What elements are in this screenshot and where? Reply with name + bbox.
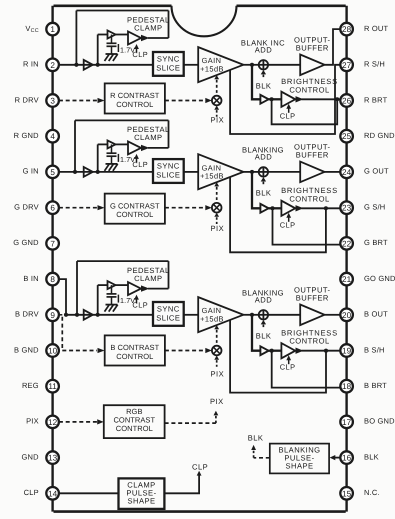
svg-text:25: 25 bbox=[342, 132, 352, 141]
svg-text:CONTROL: CONTROL bbox=[289, 85, 329, 94]
svg-text:26: 26 bbox=[342, 97, 352, 106]
svg-text:PIX: PIX bbox=[211, 370, 225, 379]
IC package outline (left edge) bbox=[51, 6, 53, 512]
wire pedestal clamp feedback to G input line bbox=[74, 120, 76, 171]
wire pedestal clamp feedback to B input line bbox=[76, 261, 78, 315]
brightness control arrow (R) bbox=[296, 96, 304, 102]
wire multiplier to gain amp (dashed, G) bbox=[214, 182, 219, 186]
svg-text:CONTROL: CONTROL bbox=[289, 194, 329, 203]
svg-text:5: 5 bbox=[50, 168, 55, 177]
wire G DRV drive input (dashed) bbox=[59, 207, 97, 209]
pin 8 circle bbox=[46, 273, 59, 286]
multiplier contrast gain control (R) bbox=[212, 96, 222, 106]
node CLP clamp pulse input (R) bbox=[136, 48, 138, 53]
IC package outline (bottom edge) bbox=[54, 510, 346, 513]
node CLP clamp pulse input (G) bbox=[136, 157, 138, 162]
wire pin 18 B BRT to brightness loop bbox=[272, 351, 341, 388]
svg-text:16: 16 bbox=[342, 454, 352, 463]
capacitor clamp storage (G) bbox=[111, 144, 113, 153]
svg-text:B OUT: B OUT bbox=[364, 310, 388, 319]
wire G S/H feedback to gain amp bbox=[230, 177, 326, 253]
node CLP clamp pulse input (B) bbox=[136, 298, 138, 303]
node gain output junction (B) bbox=[250, 313, 254, 317]
pin 16 circle bbox=[340, 451, 353, 464]
wire B output buffer to pin 20 B OUT bbox=[325, 314, 341, 316]
wire gain amp to blanking adder (G) bbox=[243, 171, 258, 173]
svg-text:SHAPE: SHAPE bbox=[286, 461, 314, 470]
clamp comparator amp (R) bbox=[128, 32, 141, 45]
svg-text:+15dB: +15dB bbox=[200, 172, 224, 181]
pedestal clamp box right edge (B) bbox=[168, 261, 170, 289]
svg-text:CONTROL: CONTROL bbox=[116, 210, 153, 219]
svg-text:BLK: BLK bbox=[256, 81, 272, 90]
node PIX into multiplier (R) bbox=[214, 106, 219, 110]
wire R brightness feedback loop bbox=[272, 99, 338, 124]
svg-text:ADD: ADD bbox=[255, 153, 272, 162]
svg-text:BUFFER: BUFFER bbox=[296, 293, 329, 302]
wire multiplier to gain amp (dashed, B) bbox=[214, 325, 219, 329]
node 1.7V reference (G) bbox=[117, 154, 119, 162]
node B clamp sense junction bbox=[96, 313, 100, 317]
gain amp +15dB (R) bbox=[198, 47, 243, 82]
svg-text:3: 3 bbox=[50, 97, 55, 106]
wire clamp amp output (G) bbox=[148, 147, 169, 149]
wire pin 12 PIX input (dashed) bbox=[59, 421, 97, 423]
svg-text:15: 15 bbox=[342, 489, 352, 498]
node CLP into brightness control (G) bbox=[288, 217, 290, 222]
node 1.7V reference (B) bbox=[117, 295, 119, 303]
svg-text:23: 23 bbox=[342, 204, 352, 213]
svg-text:PIX: PIX bbox=[210, 397, 224, 406]
svg-text:B GND: B GND bbox=[14, 345, 39, 354]
svg-text:N.C.: N.C. bbox=[364, 488, 380, 497]
svg-text:B S/H: B S/H bbox=[364, 345, 385, 354]
pin 19 circle bbox=[340, 344, 353, 357]
summing node blanking add (G) bbox=[259, 167, 268, 176]
svg-text:8: 8 bbox=[50, 275, 55, 284]
ground clamp reference (B) bbox=[106, 304, 118, 306]
wire pin 8 B IN down to B signal line bbox=[59, 279, 66, 315]
clamp buffer amp (B) bbox=[108, 281, 116, 289]
block RGB CONTRAST CONTROL bbox=[104, 405, 165, 438]
clamp comparator amp (G) bbox=[128, 141, 141, 154]
pin 4 circle bbox=[46, 130, 59, 143]
svg-text:R IN: R IN bbox=[23, 60, 39, 69]
gain amp +15dB (G) bbox=[198, 154, 243, 189]
svg-text:G IN: G IN bbox=[23, 167, 39, 176]
pedestal clamp box right edge (R) bbox=[168, 11, 170, 39]
input buffer amp (R channel) bbox=[84, 60, 93, 70]
pin 12 circle bbox=[46, 416, 59, 429]
svg-text:24: 24 bbox=[342, 168, 352, 177]
svg-text:2: 2 bbox=[50, 61, 55, 70]
node brightness loop junction (R) bbox=[270, 97, 274, 101]
svg-text:7: 7 bbox=[50, 239, 55, 248]
wire BLK blanking pulse into adder (B) bbox=[261, 320, 266, 324]
clamp buffer amp (R) bbox=[108, 31, 116, 39]
pin 22 circle bbox=[340, 237, 353, 250]
svg-text:CLP: CLP bbox=[24, 488, 39, 497]
block B CONTRAST CONTROL bbox=[105, 335, 165, 365]
svg-text:PIX: PIX bbox=[211, 224, 225, 233]
svg-text:22: 22 bbox=[342, 239, 352, 248]
wire pin 9 B DRV jog down (dashed) bbox=[59, 314, 62, 316]
pin 24 circle bbox=[340, 166, 353, 179]
wire to brightness control amp (G) bbox=[269, 207, 282, 209]
wire pedestal clamp feedback to R input line bbox=[75, 11, 77, 65]
clamp amp controlled-output arrow (R) bbox=[141, 35, 150, 41]
pin 5 circle bbox=[46, 166, 59, 179]
svg-text:SLICE: SLICE bbox=[156, 171, 180, 180]
wire R IN main signal line bbox=[59, 64, 153, 66]
node PIX into multiplier (B) bbox=[214, 356, 219, 360]
gain amp +15dB (B) bbox=[198, 297, 243, 332]
svg-text:REG: REG bbox=[22, 381, 39, 390]
IC package outline (right edge) bbox=[345, 6, 347, 512]
node G clamp feedback junction bbox=[73, 170, 77, 174]
pin 3 circle bbox=[46, 94, 59, 107]
pin 14 circle bbox=[46, 487, 59, 500]
svg-text:BUFFER: BUFFER bbox=[296, 43, 329, 52]
wire adder to output buffer (G) bbox=[268, 171, 300, 173]
svg-text:CONTROL: CONTROL bbox=[116, 100, 153, 109]
svg-text:20: 20 bbox=[342, 311, 352, 320]
pedestal clamp box top edge (B) bbox=[77, 260, 169, 262]
wire gain output down to black-level buffer (G) bbox=[252, 172, 260, 208]
node 1.7V reference (R) bbox=[117, 44, 119, 52]
wire RGB contrast control PIX output (dashed) bbox=[165, 422, 216, 424]
svg-text:SYNC: SYNC bbox=[157, 305, 180, 314]
pedestal clamp box top edge (G) bbox=[75, 119, 169, 121]
svg-text:B DRV: B DRV bbox=[15, 310, 39, 319]
svg-text:ADD: ADD bbox=[255, 296, 272, 305]
svg-text:27: 27 bbox=[342, 61, 352, 70]
IC package pin-1 index notch bbox=[172, 6, 237, 37]
svg-text:+15dB: +15dB bbox=[200, 65, 224, 74]
svg-text:CLP: CLP bbox=[280, 220, 296, 229]
wire BLK blanking pulse into adder (R) bbox=[261, 70, 266, 74]
svg-text:SLICE: SLICE bbox=[156, 313, 180, 322]
wire clamp amp output (R) bbox=[148, 37, 169, 39]
svg-text:CONTROL: CONTROL bbox=[116, 352, 153, 361]
pin 23 circle bbox=[340, 201, 353, 214]
ground clamp reference (R) bbox=[106, 53, 118, 55]
svg-text:11: 11 bbox=[48, 382, 57, 391]
wire contrast control to multiplier (dashed, R) bbox=[165, 100, 205, 102]
svg-text:G GND: G GND bbox=[13, 238, 39, 247]
wire clamp buffer to clamp amp (B) bbox=[116, 284, 129, 286]
svg-text:13: 13 bbox=[48, 454, 58, 463]
node brightness loop junction (G) bbox=[270, 206, 274, 210]
svg-text:CLAMP: CLAMP bbox=[134, 274, 162, 283]
svg-text:ADD: ADD bbox=[255, 46, 272, 55]
svg-text:PIX: PIX bbox=[26, 417, 39, 426]
pin 20 circle bbox=[340, 309, 353, 322]
block SYNC SLICE (B) bbox=[153, 302, 184, 326]
svg-text:18: 18 bbox=[342, 382, 352, 391]
svg-text:CLP: CLP bbox=[132, 160, 148, 169]
wire pin 27 R S/H feedback to gain amp bbox=[230, 65, 340, 134]
wire B input sense to clamp buffer bbox=[97, 285, 99, 315]
node R BRT wire junction bbox=[335, 97, 339, 101]
svg-text:14: 14 bbox=[48, 489, 58, 498]
svg-text:SYNC: SYNC bbox=[157, 162, 180, 171]
wire to brightness control amp (B) bbox=[269, 350, 282, 352]
svg-text:SYNC: SYNC bbox=[157, 55, 180, 64]
block SYNC SLICE (G) bbox=[153, 159, 184, 183]
pin 13 circle bbox=[46, 451, 59, 464]
wire B IN main signal line bbox=[66, 314, 153, 316]
pin 9 circle bbox=[46, 309, 59, 322]
svg-text:G S/H: G S/H bbox=[364, 203, 385, 212]
summing node blanking add (R) bbox=[259, 60, 268, 69]
wire clamp pulse shaper CLP output bbox=[164, 475, 199, 493]
svg-text:CLP: CLP bbox=[192, 463, 208, 472]
input buffer amp (G channel) bbox=[84, 167, 93, 177]
svg-text:CLAMP: CLAMP bbox=[134, 23, 162, 32]
svg-text:CONTROL: CONTROL bbox=[289, 337, 329, 346]
svg-text:R GND: R GND bbox=[14, 131, 40, 140]
wire gain amp to blanking adder (R) bbox=[243, 64, 258, 66]
pin 10 circle bbox=[46, 344, 59, 357]
wire G IN main signal line bbox=[59, 171, 153, 173]
pin 28 circle bbox=[340, 23, 353, 36]
black-level buffer amp (G) bbox=[260, 204, 268, 213]
wire brightness control to R BRT/SH pin bbox=[302, 98, 341, 100]
wire clamp amp output (B) bbox=[148, 288, 169, 290]
wire sync slice to gain amp (B) bbox=[184, 314, 199, 316]
summing node blanking add (B) bbox=[259, 310, 268, 319]
pin 25 circle bbox=[340, 130, 353, 143]
svg-text:B BRT: B BRT bbox=[364, 381, 387, 390]
wire clamp buffer to clamp amp (G) bbox=[116, 143, 129, 145]
block R CONTRAST CONTROL bbox=[105, 83, 165, 113]
pin 21 circle bbox=[340, 273, 353, 286]
pin 7 circle bbox=[46, 237, 59, 250]
block BLANKING PULSE-SHAPE bbox=[270, 444, 329, 474]
clamp amp controlled-output arrow (B) bbox=[141, 285, 150, 291]
multiplier contrast gain control (B) bbox=[212, 346, 222, 356]
node B clamp feedback junction bbox=[75, 313, 79, 317]
svg-text:PIX: PIX bbox=[211, 115, 225, 124]
wire adder to output buffer (B) bbox=[268, 314, 300, 316]
pin 26 circle bbox=[340, 94, 353, 107]
svg-text:BUFFER: BUFFER bbox=[296, 151, 329, 160]
node B S/H wire junction bbox=[324, 349, 328, 353]
wire R output buffer to pin 28 R OUT bbox=[325, 29, 341, 65]
brightness control amp (R) bbox=[281, 92, 295, 107]
pin 15 circle bbox=[340, 487, 353, 500]
wire R DRV drive input (dashed) bbox=[59, 100, 97, 102]
IC package outline (top edge, right segment) bbox=[237, 5, 346, 8]
wire contrast control to multiplier (dashed, B) bbox=[165, 350, 205, 352]
wire BLK blanking pulse into adder (G) bbox=[261, 177, 266, 181]
node PIX into multiplier (G) bbox=[214, 213, 219, 217]
svg-text:R DRV: R DRV bbox=[15, 95, 39, 104]
wire B S/H feedback to gain amp bbox=[230, 320, 326, 393]
wire brightness control to B BRT/SH pin bbox=[302, 350, 341, 352]
svg-text:6: 6 bbox=[50, 204, 55, 213]
ground clamp reference (G) bbox=[106, 163, 118, 165]
svg-text:21: 21 bbox=[342, 275, 352, 284]
node G S/H wire junction bbox=[324, 206, 328, 210]
svg-text:G BRT: G BRT bbox=[364, 238, 388, 247]
node brightness loop junction (B) bbox=[270, 349, 274, 353]
svg-text:17: 17 bbox=[342, 418, 352, 427]
svg-text:R OUT: R OUT bbox=[364, 24, 389, 33]
pin 17 circle bbox=[340, 416, 353, 429]
pin 11 circle bbox=[46, 380, 59, 393]
block CLAMP PULSE-SHAPE bbox=[119, 478, 165, 509]
black-level buffer amp (B) bbox=[260, 346, 268, 355]
svg-text:9: 9 bbox=[50, 311, 55, 320]
multiplier contrast gain control (G) bbox=[212, 203, 222, 213]
node G clamp sense junction bbox=[96, 170, 100, 174]
svg-text:SLICE: SLICE bbox=[156, 63, 180, 72]
svg-text:B IN: B IN bbox=[23, 274, 38, 283]
wire adder to output buffer (R) bbox=[268, 64, 300, 66]
pin 6 circle bbox=[46, 201, 59, 214]
wire G output buffer to pin 24 G OUT bbox=[325, 171, 341, 173]
pedestal clamp box right edge (G) bbox=[168, 120, 170, 147]
node R clamp feedback junction bbox=[74, 63, 78, 67]
wire G input sense to clamp buffer bbox=[97, 144, 99, 172]
pin 18 circle bbox=[340, 380, 353, 393]
clamp amp controlled-output arrow (G) bbox=[141, 145, 150, 151]
wire blanking pulse shaper BLK output (dashed) bbox=[254, 457, 270, 459]
svg-text:GO GND: GO GND bbox=[364, 274, 395, 283]
svg-text:G OUT: G OUT bbox=[364, 167, 389, 176]
brightness control arrow (B) bbox=[296, 348, 304, 354]
wire sync slice to gain amp (G) bbox=[184, 171, 199, 173]
svg-text:BLK: BLK bbox=[248, 434, 264, 443]
output buffer amp (R) bbox=[300, 55, 324, 76]
wire contrast control to multiplier (dashed, G) bbox=[165, 207, 205, 209]
wire R input sense to clamp buffer bbox=[97, 35, 99, 65]
pedestal clamp box top edge (R) bbox=[76, 10, 168, 12]
capacitor clamp storage (B) bbox=[111, 285, 113, 294]
pin 1 circle bbox=[46, 23, 59, 36]
svg-text:G DRV: G DRV bbox=[14, 203, 39, 212]
node CLP into brightness control (B) bbox=[288, 359, 290, 364]
pin 27 circle bbox=[340, 59, 353, 72]
wire B DRV drive input (dashed) bbox=[62, 350, 97, 352]
svg-text:CLP: CLP bbox=[280, 111, 296, 120]
svg-text:BLK: BLK bbox=[256, 189, 272, 198]
svg-text:10: 10 bbox=[48, 347, 58, 356]
clamp comparator amp (B) bbox=[128, 282, 141, 295]
svg-text:BO GND: BO GND bbox=[364, 417, 395, 426]
svg-text:CLAMP: CLAMP bbox=[134, 133, 162, 142]
IC package outline (top edge, left segment) bbox=[54, 5, 172, 8]
wire clamp buffer to clamp amp (R) bbox=[116, 34, 129, 36]
svg-text:12: 12 bbox=[48, 418, 58, 427]
svg-text:CLP: CLP bbox=[132, 301, 148, 310]
brightness control amp (B) bbox=[281, 343, 295, 358]
node B IN junction bbox=[64, 313, 68, 317]
output buffer amp (B) bbox=[300, 305, 324, 326]
wire to brightness control amp (R) bbox=[269, 98, 282, 100]
svg-text:BLK: BLK bbox=[364, 452, 379, 461]
black-level buffer amp (R) bbox=[260, 95, 268, 104]
wire gain amp to blanking adder (B) bbox=[243, 314, 258, 316]
svg-text:1: 1 bbox=[50, 25, 55, 34]
wire gain output down to black-level buffer (B) bbox=[252, 315, 260, 351]
svg-text:BLK: BLK bbox=[256, 331, 272, 340]
capacitor clamp storage (R) bbox=[111, 35, 113, 44]
node gain output junction (G) bbox=[250, 170, 254, 174]
svg-text:SHAPE: SHAPE bbox=[128, 496, 156, 505]
wire sync slice to gain amp (R) bbox=[184, 64, 199, 66]
wire pin 16 BLK into blanking pulse shaper bbox=[335, 457, 341, 459]
block SYNC SLICE (R) bbox=[153, 52, 184, 76]
brightness control amp (G) bbox=[281, 201, 295, 216]
node R clamp sense junction bbox=[96, 63, 100, 67]
output buffer amp (G) bbox=[300, 162, 324, 183]
block G CONTRAST CONTROL bbox=[105, 194, 165, 224]
wire brightness control to G BRT/SH pin bbox=[302, 207, 341, 209]
svg-text:19: 19 bbox=[342, 347, 352, 356]
clamp buffer amp (G) bbox=[108, 140, 116, 148]
svg-text:GND: GND bbox=[22, 452, 40, 461]
svg-text:28: 28 bbox=[342, 25, 352, 34]
pin 2 circle bbox=[46, 59, 59, 72]
wire gain output down to black-level buffer (R) bbox=[252, 65, 260, 100]
wire pin 22 G BRT to brightness loop bbox=[273, 208, 341, 244]
input buffer amp (B channel) bbox=[84, 310, 93, 320]
svg-text:R BRT: R BRT bbox=[364, 95, 388, 104]
svg-text:R S/H: R S/H bbox=[364, 60, 385, 69]
svg-text:RD GND: RD GND bbox=[364, 131, 395, 140]
svg-text:+15dB: +15dB bbox=[200, 315, 224, 324]
svg-text:CONTROL: CONTROL bbox=[116, 424, 153, 433]
wire pin 14 CLP to clamp pulse shaper bbox=[59, 492, 119, 494]
svg-text:4: 4 bbox=[50, 132, 55, 141]
brightness control arrow (G) bbox=[296, 205, 304, 211]
svg-text:CLP: CLP bbox=[280, 363, 296, 372]
wire multiplier to gain amp (dashed, R) bbox=[214, 75, 219, 79]
node gain output junction (R) bbox=[250, 63, 254, 67]
node CLP into brightness control (R) bbox=[288, 108, 290, 113]
svg-text:CLP: CLP bbox=[132, 50, 148, 59]
